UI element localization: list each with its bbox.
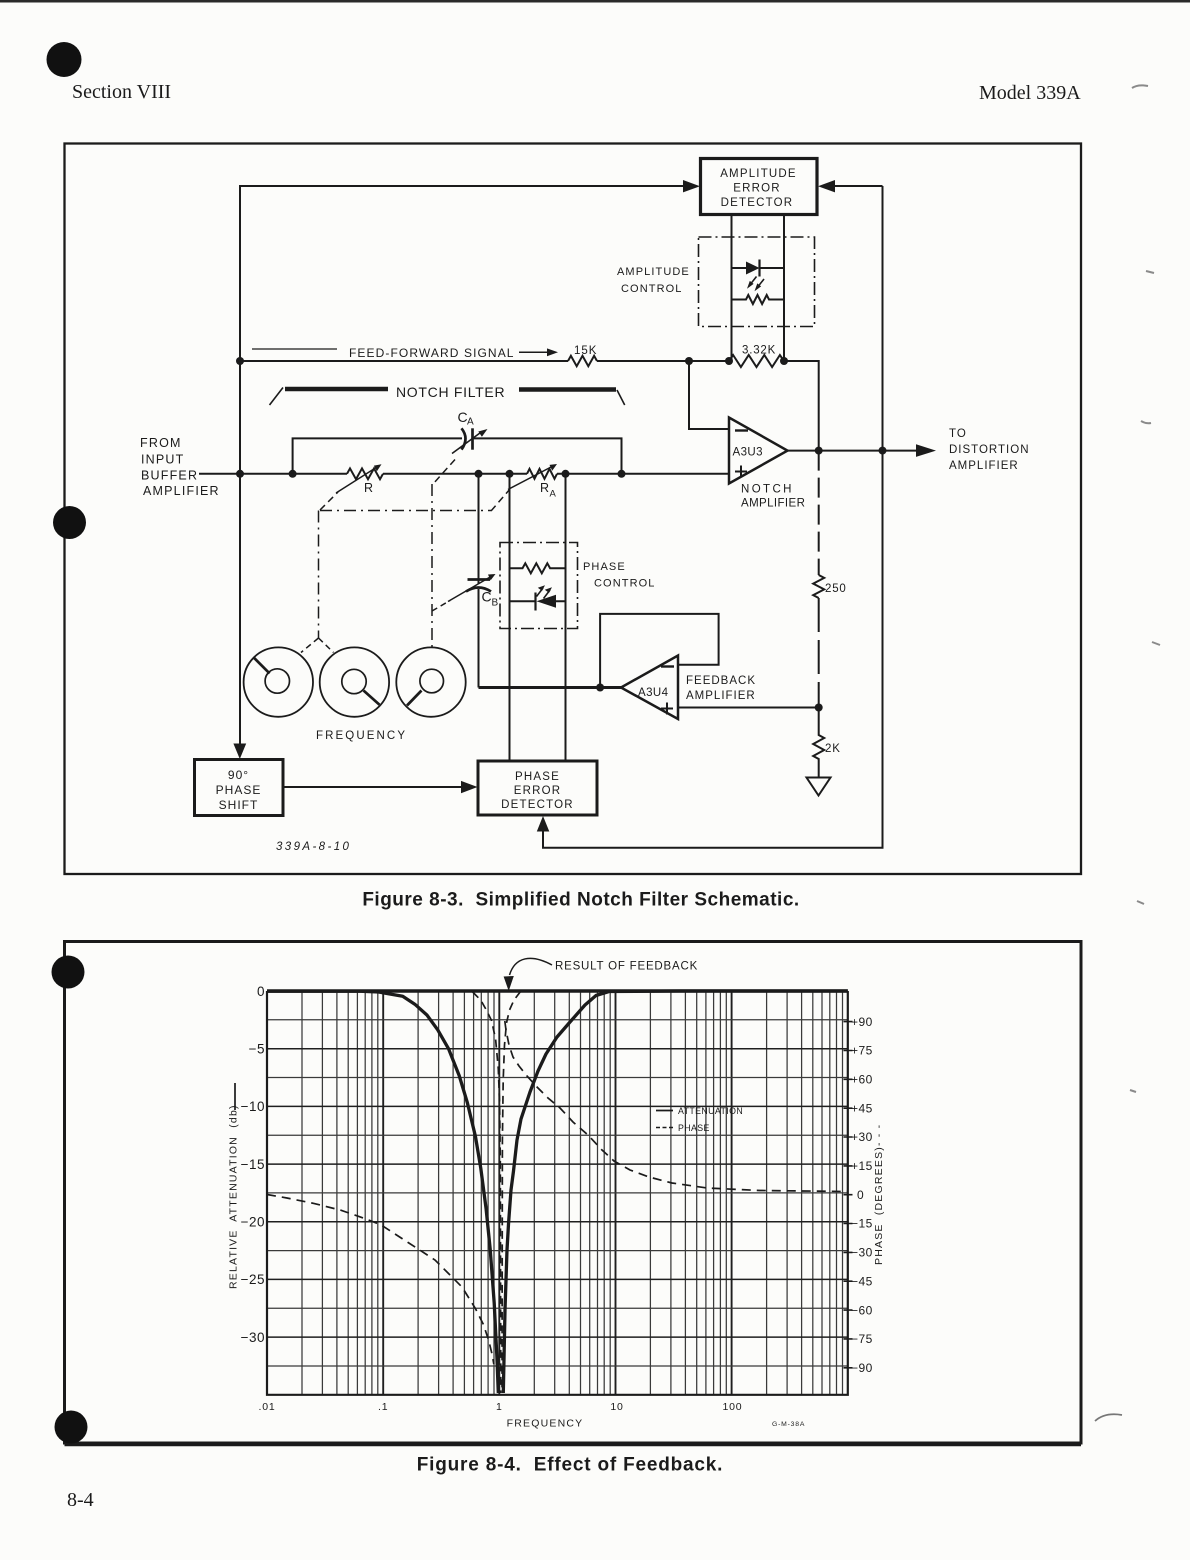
- svg-text:Model 339A: Model 339A: [979, 82, 1081, 104]
- gang line: fork to dial 1: [301, 638, 319, 653]
- svg-text:−5: −5: [249, 1042, 265, 1057]
- svg-text:Section VIII: Section VIII: [72, 81, 171, 103]
- figure 8-4 border frame: [65, 942, 1082, 1444]
- wire: main input line: [199, 473, 347, 475]
- svg-text:−15: −15: [851, 1217, 873, 1231]
- svg-text:8-4: 8-4: [67, 1489, 94, 1511]
- svg-text:AMPLITUDE: AMPLITUDE: [617, 266, 690, 278]
- svg-text:ATTENUATION: ATTENUATION: [678, 1106, 743, 1116]
- result of feedback dashed narrow notch right branch: [502, 992, 521, 1394]
- svg-text:−90: −90: [851, 1361, 873, 1375]
- svg-text:R: R: [540, 481, 549, 495]
- wire: AED bottom left lead down to LED: [731, 215, 733, 269]
- gang line: horizontal bar: [320, 510, 491, 512]
- punch hole dot 2: [53, 506, 86, 539]
- svg-text:+30: +30: [851, 1130, 873, 1144]
- LED CR-phase (opto lamp): [510, 600, 566, 602]
- wire: 3.32K to right bend down to output junction: [784, 361, 819, 451]
- node: A3U4 plus junction: [815, 704, 823, 712]
- svg-text:FREQUENCY: FREQUENCY: [316, 730, 407, 742]
- svg-text:−25: −25: [241, 1272, 265, 1287]
- dial 3 frequency control: [396, 647, 465, 716]
- amplitude control dash-dot enclosure: [699, 237, 815, 327]
- svg-text:NOTCH FILTER: NOTCH FILTER: [396, 384, 505, 400]
- wire: RA to A3U3 plus input: [557, 473, 729, 475]
- amplitude error detector box U-AED: [701, 159, 818, 215]
- capacitor CA variable: [462, 428, 466, 449]
- svg-text:+15: +15: [851, 1159, 873, 1173]
- arrow to distortion amplifier: [916, 444, 936, 457]
- wire: phase control right vertical: [565, 474, 567, 761]
- right margin smudge marks: [1130, 85, 1160, 1092]
- punch hole dot 3: [52, 956, 85, 989]
- graph minor log grid verticals: [302, 991, 843, 1395]
- svg-text:100: 100: [723, 1401, 743, 1413]
- arrow into amplitude error detector left: [683, 180, 700, 192]
- LED light arrows toward photoresistor: [749, 277, 757, 287]
- punch hole dot 4: [55, 1411, 88, 1444]
- svg-text:−15: −15: [241, 1157, 265, 1172]
- wire: 90 deg box to phase error detector: [283, 786, 462, 788]
- dial 2 frequency control: [320, 647, 389, 716]
- LED CR-amplitude (opto lamp): [732, 267, 785, 269]
- svg-text:CONTROL: CONTROL: [621, 283, 682, 295]
- svg-text:PHASE: PHASE: [678, 1123, 710, 1133]
- svg-text:Figure 8-4. Effect of Feedbac: Figure 8-4. Effect of Feedback.: [417, 1455, 723, 1476]
- gang line: fork to dial 2: [319, 638, 334, 653]
- svg-text:A3U3: A3U3: [733, 447, 763, 459]
- svg-text:B: B: [492, 598, 499, 609]
- node: output junction at right feedback vertical: [879, 447, 887, 455]
- svg-text:A3U4: A3U4: [638, 687, 669, 699]
- graph minor grid horizontals: [267, 1020, 848, 1366]
- node: output junction at 250 branch: [815, 447, 823, 455]
- node: CB branch: [475, 470, 483, 478]
- svg-text:FEEDBACK: FEEDBACK: [686, 675, 756, 687]
- svg-text:−45: −45: [851, 1274, 873, 1288]
- resistor 15K: [568, 356, 597, 366]
- svg-text:BUFFER: BUFFER: [141, 469, 198, 483]
- node: phase control left: [506, 470, 514, 478]
- legend attenuation sample: [656, 1110, 673, 1112]
- wire: R to RA: [383, 473, 527, 475]
- graph major grid horizontals: [267, 1049, 848, 1337]
- svg-text:DETECTOR: DETECTOR: [721, 197, 794, 209]
- wire: feed-forward signal line: [240, 360, 568, 362]
- arrow into phase error detector left: [461, 781, 478, 793]
- svg-text:1: 1: [496, 1401, 503, 1413]
- svg-text:339A-8-10: 339A-8-10: [276, 841, 351, 853]
- wire: CA upper branch: [293, 438, 622, 473]
- svg-text:RESULT OF FEEDBACK: RESULT OF FEEDBACK: [555, 961, 698, 973]
- svg-text:0: 0: [257, 984, 265, 999]
- svg-text:AMPLITUDE: AMPLITUDE: [720, 168, 797, 180]
- node: 3.32K right: [780, 357, 788, 365]
- wire: bottom feedback run: [543, 451, 883, 848]
- wire: A3U4 plus input line: [678, 707, 819, 709]
- svg-text:15K: 15K: [574, 345, 597, 357]
- wire: AED bottom right lead down to LED: [783, 215, 785, 269]
- svg-text:G-M-38A: G-M-38A: [772, 1421, 805, 1428]
- svg-text:+90: +90: [851, 1015, 873, 1029]
- resistor 250: [813, 575, 824, 598]
- svg-text:RELATIVE ATTENUATION (db): RELATIVE ATTENUATION (db): [228, 1104, 240, 1289]
- gang line: CB diagonal: [432, 601, 450, 612]
- svg-text:FEED-FORWARD SIGNAL: FEED-FORWARD SIGNAL: [349, 346, 515, 360]
- svg-text:FROM: FROM: [140, 436, 182, 450]
- svg-text:SHIFT: SHIFT: [219, 798, 259, 812]
- svg-text:ERROR: ERROR: [733, 183, 781, 195]
- wire: minus input branch from feed-forward node: [689, 361, 729, 429]
- graph decade grid verticals: [383, 991, 731, 1395]
- box phase error detector: [478, 761, 597, 815]
- figure 8-3 border frame: [65, 144, 1082, 875]
- scan edge strip top: [0, 0, 1190, 3]
- svg-text:R: R: [364, 481, 373, 495]
- gang line: CA diagonal: [433, 460, 455, 485]
- resistor RA variable: [527, 469, 557, 479]
- wire: 15K to 3.32K: [597, 360, 729, 362]
- graph plot frame: [267, 991, 848, 1395]
- ground symbol: [807, 778, 831, 796]
- result of feedback dashed narrow notch left branch: [473, 992, 501, 1393]
- wire: photoresistor down to 3.32K line: [732, 300, 785, 362]
- svg-text:A: A: [550, 489, 557, 500]
- resistor R variable: [347, 468, 383, 479]
- feed-forward label leader line: [252, 348, 337, 350]
- svg-text:TO: TO: [949, 428, 967, 440]
- capacitor CB variable: [468, 578, 491, 581]
- node: CA branch right: [618, 470, 626, 478]
- wire: from right feedback vertical to AED: [834, 185, 883, 187]
- svg-text:ERROR: ERROR: [514, 785, 562, 797]
- punch hole dot 1: [47, 42, 82, 77]
- legend phase sample: [656, 1127, 674, 1129]
- wire: LED to photoresistor verticals: [732, 268, 785, 300]
- svg-text:−60: −60: [851, 1303, 873, 1317]
- node: main line at loop vertical: [236, 470, 244, 478]
- svg-text:PHASE (DEGREES)- - -: PHASE (DEGREES)- - -: [873, 1124, 885, 1265]
- figure 8-4 frame bottom extra thickness: [65, 1444, 1082, 1446]
- svg-text:−10: −10: [241, 1099, 265, 1114]
- svg-text:AMPLIFIER: AMPLIFIER: [143, 484, 220, 498]
- wire: CB branch vertical lower: [478, 589, 480, 688]
- gang line: R to bar diagonal: [320, 492, 338, 510]
- gang line: RA to bar diagonal: [491, 489, 510, 511]
- svg-text:DISTORTION: DISTORTION: [949, 444, 1030, 456]
- wire: CB branch vertical upper: [478, 474, 480, 584]
- wire: A3U4 output heavy line to CB branch: [479, 686, 622, 689]
- svg-text:3.32K: 3.32K: [742, 345, 776, 357]
- graph 0db top edge thick: [267, 989, 848, 992]
- attenuation curve solid notch: [267, 991, 848, 1393]
- svg-text:+60: +60: [851, 1073, 873, 1087]
- phase curve dashed right branch: [505, 1021, 848, 1192]
- svg-text:+45: +45: [851, 1101, 873, 1115]
- gang line: vertical to dial 3: [431, 484, 433, 648]
- wire: dashed drop from output junction to 250: [818, 451, 820, 575]
- svg-text:FREQUENCY: FREQUENCY: [507, 1418, 584, 1430]
- svg-text:Figure 8-3. Simplified Notch: Figure 8-3. Simplified Notch Filter Sche…: [362, 890, 799, 911]
- svg-text:250: 250: [825, 583, 847, 595]
- svg-text:NOTCH: NOTCH: [741, 484, 794, 496]
- svg-text:.1: .1: [378, 1401, 388, 1413]
- svg-text:C: C: [482, 589, 492, 605]
- svg-text:+75: +75: [851, 1044, 873, 1058]
- svg-text:2K: 2K: [825, 743, 841, 755]
- wire: 250 down to feedback node: [818, 598, 820, 708]
- feed-forward label arrow: [519, 351, 548, 353]
- wire: feedback loop left vertical and top run to amplitude error detector: [240, 186, 683, 744]
- svg-text:−30: −30: [851, 1246, 873, 1260]
- svg-text:DETECTOR: DETECTOR: [501, 799, 574, 811]
- svg-text:PHASE: PHASE: [515, 771, 560, 783]
- squiggle mark bottom right: [1095, 1414, 1122, 1421]
- resistor 2K: [813, 708, 824, 778]
- op-amp A3U4 feedback amplifier: [621, 656, 678, 720]
- wire: phase control left vertical: [509, 474, 511, 761]
- op-amp A3U3 notch amplifier: [729, 418, 788, 484]
- svg-text:AMPLIFIER: AMPLIFIER: [686, 690, 756, 702]
- svg-text:CONTROL: CONTROL: [594, 578, 655, 590]
- wire: A3U3 output line: [788, 450, 918, 452]
- svg-text:AMPLIFIER: AMPLIFIER: [741, 498, 805, 510]
- node: CA branch left: [289, 470, 297, 478]
- svg-text:90°: 90°: [228, 768, 249, 782]
- node: 3.32K left: [725, 357, 733, 365]
- photoresistor R-phase: [510, 563, 566, 573]
- svg-text:A: A: [467, 417, 474, 428]
- node: feed-forward left: [236, 357, 244, 365]
- phase axis ticks: [844, 1022, 853, 1368]
- svg-text:−20: −20: [241, 1215, 265, 1230]
- svg-text:0: 0: [857, 1188, 864, 1202]
- solid line sample above left label: [234, 1083, 236, 1110]
- arrow up into phase error detector bottom: [537, 816, 550, 832]
- svg-text:AMPLIFIER: AMPLIFIER: [949, 460, 1019, 472]
- svg-text:−30: −30: [241, 1330, 265, 1345]
- node: phase control right: [562, 470, 570, 478]
- box 90 degree phase shift: [195, 760, 284, 816]
- label NOTCH FILTER heading with bars: [270, 388, 284, 406]
- svg-text:PHASE: PHASE: [583, 561, 626, 573]
- gang line: vertical to dial fork: [318, 511, 320, 639]
- svg-text:.01: .01: [259, 1401, 276, 1413]
- LED light arrows toward photoresistor: [537, 588, 544, 597]
- node: minus branch tap: [685, 357, 693, 365]
- svg-text:PHASE: PHASE: [216, 783, 262, 797]
- node: A3U4 loop junction on output: [596, 684, 604, 692]
- phase curve dashed left branch: [267, 1195, 494, 1365]
- arrow down into 90 deg phase shift: [233, 744, 246, 760]
- wire: right feedback vertical down to notch amplifier output: [882, 186, 884, 451]
- photoresistor R-amplitude: [732, 295, 785, 304]
- dial 1 frequency control: [244, 647, 313, 716]
- phase control dash-dot enclosure: [500, 543, 578, 629]
- svg-text:10: 10: [610, 1401, 623, 1413]
- svg-text:INPUT: INPUT: [141, 453, 185, 467]
- svg-text:−75: −75: [851, 1332, 873, 1346]
- arrow into amplitude error detector right: [818, 180, 835, 192]
- resistor 3.32K: [729, 355, 784, 367]
- wire: A3U4 feedback loop minus to output: [600, 614, 719, 688]
